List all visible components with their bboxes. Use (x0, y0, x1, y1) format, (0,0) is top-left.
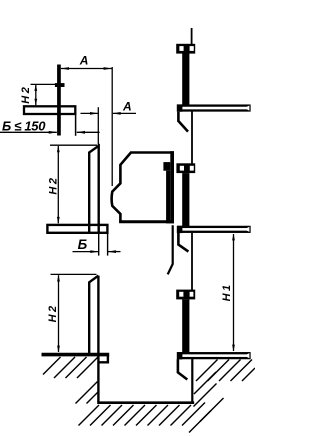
svg-text:А: А (79, 54, 89, 68)
svg-text:Б: Б (78, 237, 88, 252)
svg-text:Н2: Н2 (47, 176, 59, 195)
svg-text:Н2: Н2 (47, 303, 59, 322)
svg-text:Б ≤ 150: Б ≤ 150 (2, 119, 46, 134)
svg-text:А: А (122, 99, 132, 113)
svg-text:Н1: Н1 (221, 282, 233, 301)
svg-text:Н2: Н2 (20, 85, 32, 104)
